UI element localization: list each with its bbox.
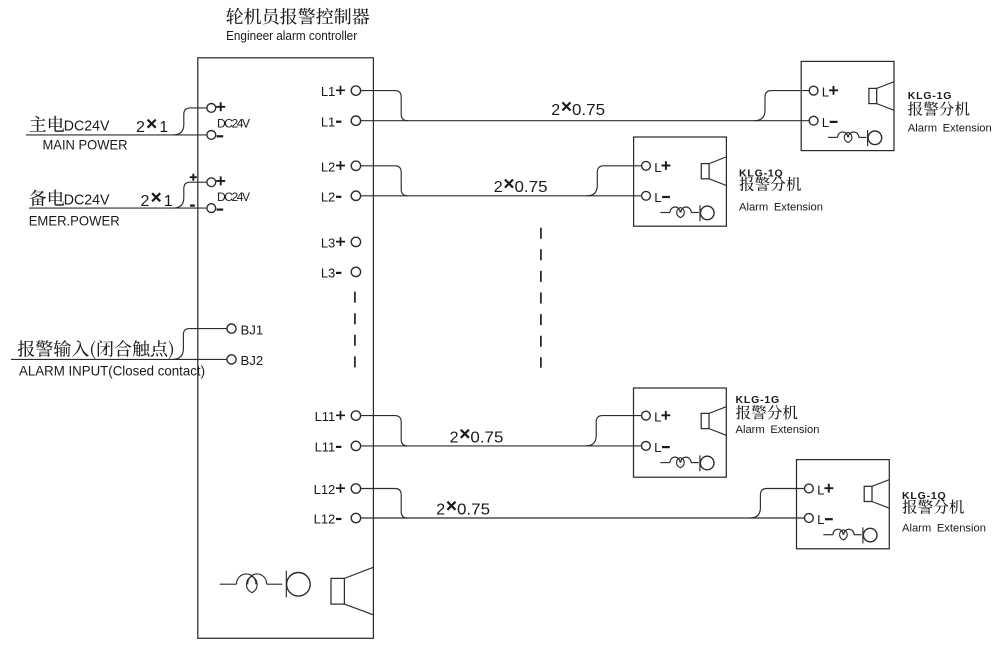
label 报警分机 (box 4) [903,499,965,514]
label L- (box 4) [817,512,833,527]
terminal L- (box 2) [642,191,651,200]
polarity + at main terminal [216,102,225,111]
terminal L+ (box 4) [805,484,814,493]
polarity - at main terminal [217,135,224,137]
svg-text:L12: L12 [314,512,336,527]
wire alarm input BJ1 fork [172,329,227,360]
terminal main - [207,131,216,140]
label L- (box 2) [654,190,670,205]
svg-text:DC24V: DC24V [64,193,110,209]
beacon lamp icon (box 4) [823,527,877,543]
svg-text:L11: L11 [315,440,336,455]
svg-text:EMER.POWER: EMER.POWER [29,212,120,228]
beacon lamp icon (box 2) [660,205,714,221]
svg-text:L2: L2 [321,159,335,174]
beacon lamp icon (box 1) [828,130,882,146]
wire emer power minus [29,207,207,209]
svg-text:L: L [817,483,824,498]
wire emer power plus fork [173,182,207,208]
label L+ (box 2) [654,160,670,175]
label 2x0.75 (L12 cable) [436,501,490,518]
terminal L12+ [314,482,361,497]
svg-text:2: 2 [450,429,459,446]
terminal emer + [207,178,216,187]
svg-text:1: 1 [164,193,173,210]
svg-text:0.75: 0.75 [457,501,490,518]
wire L2 pair (plus drop) [360,166,407,196]
label L+ (box 1) [822,85,838,100]
svg-text:Engineer alarm controller: Engineer alarm controller [226,28,358,43]
terminal L12- [314,512,361,527]
wire L1 pair (plus drop) [360,91,407,121]
svg-text:L12: L12 [314,482,336,497]
terminal L1- [321,114,361,129]
wire main power plus fork [173,108,207,135]
speaker icon (box 1) [869,82,894,111]
wire main power minus [26,134,207,136]
svg-text:L1: L1 [321,84,335,99]
svg-text:Alarm Extension: Alarm Extension [902,523,986,535]
svg-text:2: 2 [494,179,503,196]
svg-text:DC24V: DC24V [217,190,250,204]
svg-text:0.75: 0.75 [515,179,548,196]
terminal L1+ [321,84,361,99]
terminal L- (box 3) [642,442,651,451]
svg-text:ALARM INPUT(Closed contact): ALARM INPUT(Closed contact) [19,363,205,379]
wire L1 pair (plus rise at extension) [754,91,809,121]
svg-text:0.75: 0.75 [470,429,503,446]
wire alarm input BJ2 [11,358,227,360]
svg-text:L1: L1 [321,114,335,129]
svg-text:0.75: 0.75 [572,102,605,119]
terminal L2+ [321,159,361,174]
dashed continuation (terminal rows L4..L10) [354,292,356,369]
svg-text:DC24V: DC24V [64,118,110,134]
svg-text:BJ1: BJ1 [241,322,264,337]
svg-text:Alarm Extension: Alarm Extension [739,201,823,213]
controller box (Engineer alarm controller) [198,58,374,639]
polarity + at emer terminal [216,176,225,185]
label 2x1 (main power cable) [136,119,168,136]
label 报警分机 (box 3) [736,405,798,420]
terminal L11+ [315,409,361,424]
terminal L- (box 4) [805,514,814,523]
wire L2 pair (run to extension) [360,195,641,197]
alarm extension box 3 (KLG-1G) [634,388,727,477]
svg-text:L: L [822,115,829,130]
svg-text:L2: L2 [321,189,335,204]
terminal main + [207,104,216,113]
beacon lamp icon (box 3) [660,455,714,471]
svg-text:DC24V: DC24V [217,116,250,130]
wire L11 pair (plus rise at extension) [586,416,641,446]
label 报警分机 (box 2) [740,177,802,192]
svg-text:Alarm Extension: Alarm Extension [736,424,820,436]
terminal BJ2 [227,355,236,364]
terminal L+ (box 3) [642,411,651,420]
terminal L11- [315,440,361,455]
alarm extension box 1 (KLG-1G) [801,61,894,150]
label L+ (box 4) [817,483,833,498]
terminal L3+ [321,236,361,251]
svg-text:BJ2: BJ2 [241,353,264,368]
svg-text:2: 2 [136,119,145,136]
label 2x0.75 (L1 cable) [551,102,605,119]
svg-text:KLG-1G: KLG-1G [908,90,952,102]
terminal emer - [207,204,216,213]
svg-text:KLG-1G: KLG-1G [736,394,780,406]
wire L12 pair (plus drop) [360,489,407,519]
svg-text:2: 2 [141,193,150,210]
dashed continuation (field cables) [540,228,542,368]
wire L11 pair (plus drop) [360,416,407,446]
terminal L- (box 1) [809,116,818,125]
wire L1 pair (run to extension) [360,120,809,122]
speaker icon (box 2) [701,157,726,186]
label L- (box 3) [654,440,670,455]
polarity - on emer fork [190,205,195,207]
wire L11 pair (run to extension) [360,445,641,447]
svg-text:MAIN POWER: MAIN POWER [43,137,128,153]
label 备电 [29,190,64,207]
polarity + on emer fork [190,174,197,181]
label 2x0.75 (L11 cable) [450,429,504,446]
label 主电 [29,116,64,132]
label 2x1 (emer power cable) [141,193,173,210]
terminal L2- [321,189,361,204]
label L- (box 1) [822,115,838,130]
svg-text:L11: L11 [315,409,336,424]
svg-text:2: 2 [551,102,560,119]
terminal BJ1 [227,324,236,333]
svg-text:Alarm Extension: Alarm Extension [908,123,992,135]
label L+ (box 3) [654,410,670,425]
svg-text:L3: L3 [321,266,335,281]
terminal L3- [321,266,361,281]
speaker icon (controller) [331,567,373,615]
label 2x0.75 (L2 cable) [494,179,548,196]
speaker icon (box 3) [701,407,726,436]
alarm extension box 2 (KLG-1Q) [634,137,727,226]
wire L2 pair (plus rise at extension) [587,166,642,196]
terminal L+ (box 2) [642,161,651,170]
terminal L+ (box 1) [809,86,818,95]
svg-text:L: L [654,190,661,205]
polarity - at emer terminal [217,209,224,211]
alarm extension box 4 (KLG-1Q) [797,460,890,549]
beacon lamp icon (controller) [220,571,311,598]
svg-text:2: 2 [436,501,445,518]
svg-text:L: L [654,440,661,455]
svg-text:L: L [654,160,661,175]
wire L12 pair (run to extension) [360,517,804,519]
svg-text:L: L [654,410,661,425]
svg-text:L3: L3 [321,236,335,251]
svg-text:L: L [817,512,824,527]
svg-text:L: L [822,85,829,100]
label 报警输入(闭合触点) [18,340,173,359]
title 轮机员报警控制器 [226,8,369,25]
wire L12 pair (plus rise at extension) [750,489,805,519]
label 报警分机 (box 1) [908,101,970,116]
speaker icon (box 4) [864,480,889,509]
svg-text:1: 1 [159,119,168,136]
